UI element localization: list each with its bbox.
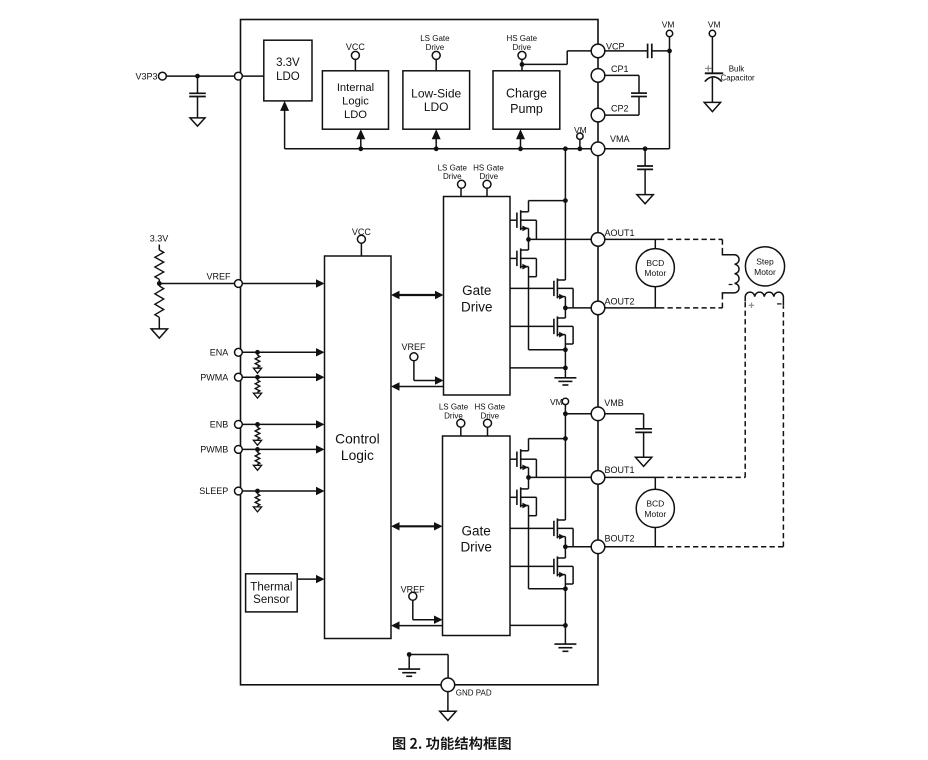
net label LS Gate Drive (top)	[420, 34, 450, 52]
wire LS Gate Drive stub (top)	[435, 59, 437, 70]
net label VM (near VMA)	[574, 125, 587, 135]
resistor R-divider-top	[155, 245, 164, 284]
pin CP2	[591, 108, 605, 122]
capacitor C-bulk polarized	[705, 73, 723, 102]
svg-text:Gate: Gate	[462, 283, 491, 298]
polarity + (bulk cap)	[705, 65, 712, 71]
svg-text:VREF: VREF	[401, 342, 426, 352]
node junction AOUT2 source	[563, 306, 568, 311]
ground (GND PAD)	[440, 711, 456, 720]
pin label BOUT1	[605, 465, 635, 475]
svg-text:CP1: CP1	[611, 64, 629, 74]
svg-text:LS Gate: LS Gate	[420, 34, 450, 43]
wire BCD motor 2 taps	[654, 477, 656, 546]
svg-text:VCP: VCP	[606, 41, 625, 51]
pin label CP1	[611, 64, 629, 74]
wire Thermal Sensor to Control Logic with arrow	[297, 575, 324, 583]
pin VMA	[591, 142, 605, 156]
ground (V3P3 cap)	[190, 118, 205, 126]
resistor pulldown ENA	[253, 350, 261, 373]
svg-text:Logic: Logic	[342, 95, 369, 107]
pin label BOUT2	[605, 533, 635, 543]
pin ENA	[235, 348, 243, 356]
svg-text:LDO: LDO	[276, 71, 300, 83]
svg-text:HS Gate: HS Gate	[473, 163, 504, 172]
IC boundary (chip outline)	[241, 20, 599, 685]
node junction A gnd return	[563, 366, 568, 371]
wire GND PAD to internal ground	[409, 655, 448, 679]
svg-text:Capacitor: Capacitor	[720, 73, 755, 82]
svg-text:PWMB: PWMB	[200, 445, 228, 455]
net label ENA	[210, 348, 229, 358]
svg-text:HS Gate: HS Gate	[474, 403, 505, 412]
block Gate Drive A	[444, 197, 511, 396]
pin VMB	[591, 407, 605, 421]
transistor M4A (low-side A2)	[510, 308, 573, 378]
node junction B gnd return	[563, 623, 568, 628]
pin PWMB	[235, 446, 243, 454]
node VM circle B	[562, 398, 568, 404]
wire PWMB to Control Logic with arrow	[242, 445, 324, 453]
node HS Gate Drive circle (top)	[518, 51, 526, 59]
svg-text:CP2: CP2	[611, 103, 629, 113]
net label ENB	[210, 420, 229, 430]
svg-text:Drive: Drive	[460, 540, 492, 555]
wire VCC stub (control logic)	[360, 243, 362, 256]
svg-text:VM: VM	[550, 397, 563, 407]
node HS Gate Drive circle B	[484, 419, 492, 427]
svg-text:Drive: Drive	[479, 172, 498, 181]
block Low-Side LDO	[403, 71, 470, 129]
ground (bridge B)	[554, 644, 576, 651]
svg-text:Logic: Logic	[341, 448, 374, 463]
caption 图2 functional block diagram	[393, 737, 511, 751]
node VCC circle (control logic)	[357, 235, 365, 243]
node VM circle (near VMA)	[577, 133, 583, 139]
node LS Gate Drive circle (top)	[432, 51, 440, 59]
ground (bulk cap)	[704, 102, 720, 111]
node VM-VCP junction	[667, 49, 672, 54]
wire rail to Internal Logic LDO with arrow	[356, 129, 365, 149]
net label PWMA	[200, 372, 228, 382]
net label VREF (bridge B)	[401, 584, 426, 594]
pin BOUT2	[591, 540, 605, 554]
wire BOUT1 dashed to winding B	[659, 302, 745, 478]
svg-text:BCD: BCD	[646, 499, 664, 509]
node junction B source return	[563, 586, 568, 591]
svg-text:VM: VM	[662, 20, 675, 30]
node junction M1A drain	[563, 198, 568, 203]
node rail junction under ILLDO	[358, 146, 363, 151]
wire VM rail A vertical	[564, 149, 566, 280]
svg-text:PWMA: PWMA	[200, 372, 228, 382]
node junction M1B drain	[563, 436, 568, 441]
transistor M2B (low-side B1)	[510, 477, 565, 588]
pin label GND PAD	[456, 688, 492, 697]
pin CP1	[591, 69, 605, 83]
wire HS stub A	[486, 188, 488, 196]
wire cap to VM node	[652, 50, 670, 52]
motor BCD Motor 2	[636, 489, 674, 527]
node HS Gate Drive circle A	[483, 180, 491, 188]
pin label AOUT1	[605, 228, 635, 238]
block Internal Logic LDO	[322, 71, 388, 129]
wire CP1-CP2 loop	[605, 75, 639, 115]
svg-text:Step: Step	[756, 257, 774, 267]
svg-text:Pump: Pump	[510, 102, 543, 116]
svg-text:Motor: Motor	[644, 268, 666, 278]
svg-text:Charge: Charge	[506, 86, 547, 100]
svg-text:Motor: Motor	[644, 509, 666, 519]
capacitor C-V3P3	[189, 76, 206, 118]
wire ENB to Control Logic with arrow	[242, 420, 324, 428]
node rail junction under LSLDO	[434, 146, 439, 151]
svg-text:VMA: VMA	[610, 134, 630, 144]
svg-text:VCC: VCC	[346, 42, 366, 52]
node rail junction under Charge Pump	[518, 146, 523, 151]
net label HS Gate Drive (bridge A)	[473, 163, 504, 181]
svg-text:Thermal: Thermal	[250, 582, 292, 594]
svg-text:3.3V: 3.3V	[276, 57, 300, 69]
wire VCP to cap	[605, 50, 648, 52]
svg-text:Drive: Drive	[461, 299, 493, 314]
ground (internal)	[398, 669, 420, 676]
inductor winding A (step motor)	[722, 252, 739, 296]
svg-text:Drive: Drive	[512, 43, 531, 52]
capacitor C-VMA	[637, 149, 653, 195]
wire LS stub A	[460, 188, 462, 196]
svg-text:3.3V: 3.3V	[150, 234, 169, 244]
net label VCC (top)	[346, 42, 366, 52]
svg-text:GND PAD: GND PAD	[456, 688, 492, 697]
wire VREF B to gate drive with arrow	[413, 600, 443, 624]
wire gate drive A return	[510, 367, 565, 369]
net label LS Gate Drive (bridge B)	[439, 403, 469, 421]
wire rail to Low-Side LDO with arrow	[432, 129, 441, 149]
transistor M2A (low-side A1)	[510, 239, 565, 349]
net label VM (top)	[662, 20, 675, 30]
node VCC circle (top)	[351, 51, 359, 59]
node junction A source return	[563, 347, 568, 352]
transistor M1A (high-side A1)	[510, 201, 536, 240]
pin GND PAD	[441, 678, 455, 692]
pin BOUT1	[591, 471, 605, 485]
capacitor C-VCP (series)	[648, 44, 652, 59]
resistor pulldown PWMB	[253, 447, 261, 470]
wire M1B drain top link	[529, 438, 566, 440]
net label SLEEP	[199, 486, 228, 496]
block Charge Pump	[493, 71, 560, 129]
wire VM to bulk cap	[711, 37, 713, 73]
net label PWMB	[200, 445, 228, 455]
resistor pulldown ENB	[253, 422, 261, 445]
pin ENB	[235, 421, 243, 429]
net label HS Gate Drive (bridge B)	[474, 403, 505, 421]
wire gate drive B return	[510, 624, 565, 626]
node junction AOUT1 source	[526, 237, 531, 242]
net label VREF (pin)	[206, 272, 231, 282]
inductor winding B (step motor)	[745, 292, 783, 306]
pin VCP	[591, 44, 605, 58]
svg-text:VM: VM	[708, 20, 721, 30]
wire SLEEP to Control Logic with arrow	[242, 487, 324, 495]
ground (bridge A)	[554, 378, 576, 385]
node junction BOUT1 source	[526, 475, 531, 480]
block Thermal Sensor	[246, 574, 298, 612]
node VM circle (bulk)	[709, 30, 715, 36]
wire LS stub B	[460, 427, 462, 436]
wire AOUT2 dashed to winding A	[659, 296, 722, 308]
pin AOUT1	[591, 233, 605, 247]
net label HS Gate Drive (top)	[506, 34, 537, 52]
transistor M1B (high-side B1)	[510, 439, 536, 478]
svg-text:Bulk: Bulk	[729, 64, 746, 73]
svg-text:BOUT2: BOUT2	[605, 533, 635, 543]
wire VMB line	[565, 413, 643, 415]
wire VCC stub	[354, 59, 356, 70]
block Gate Drive B	[443, 436, 511, 636]
polarity - (winding A)	[729, 284, 733, 286]
wire bidirectional Control-GateDriveB	[391, 522, 443, 530]
block 3.3V LDO	[264, 40, 312, 101]
svg-text:Drive: Drive	[443, 172, 462, 181]
svg-text:AOUT1: AOUT1	[605, 228, 635, 238]
node V3P3 junction	[195, 74, 200, 79]
svg-text:SLEEP: SLEEP	[199, 486, 228, 496]
wire gate drive A to control with arrow	[391, 382, 444, 390]
node VMA cap junction	[643, 146, 648, 151]
block Control Logic	[325, 256, 392, 639]
node VREF circle A	[410, 353, 418, 361]
net label VM (bulk)	[708, 20, 721, 30]
pin label VMB	[604, 398, 624, 408]
svg-text:Drive: Drive	[426, 43, 445, 52]
pin label AOUT2	[605, 296, 635, 306]
net label V3P3	[135, 71, 157, 81]
node LS Gate Drive circle A	[458, 180, 466, 188]
pin PWMA	[235, 373, 243, 381]
ground (VMA cap)	[637, 195, 653, 204]
pin AOUT2	[591, 301, 605, 315]
svg-text:LS Gate: LS Gate	[438, 163, 468, 172]
svg-text:Motor: Motor	[754, 267, 776, 277]
net label VCC (control logic)	[352, 227, 372, 237]
capacitor C-flying (CP1-CP2)	[631, 93, 647, 96]
svg-text:Internal: Internal	[337, 82, 374, 94]
capacitor C-VMB	[635, 414, 652, 457]
wire V3P3 to 3.3V LDO	[166, 75, 263, 77]
wire VM tap stub near VMA	[579, 139, 581, 148]
svg-text:ENA: ENA	[210, 348, 229, 358]
ground (divider)	[151, 329, 167, 338]
wire VM stub B	[564, 405, 566, 414]
svg-text:BOUT1: BOUT1	[605, 465, 635, 475]
pin label CP2	[611, 103, 629, 113]
svg-text:Gate: Gate	[462, 523, 491, 538]
pin label VMA	[610, 134, 630, 144]
svg-text:Low-Side: Low-Side	[411, 87, 461, 101]
wire GND PAD down	[447, 692, 449, 712]
wire BCD motor 1 taps	[654, 239, 656, 308]
svg-text:V3P3: V3P3	[135, 71, 157, 81]
wire gate drive B to control with arrow	[391, 621, 443, 629]
pin V3P3 (external terminal)	[159, 72, 167, 80]
svg-text:LDO: LDO	[424, 100, 449, 114]
wire AOUT2 net	[565, 307, 659, 309]
wire AOUT1 dashed to winding A	[659, 239, 722, 252]
svg-text:VREF: VREF	[206, 272, 231, 282]
wire internal VM rail (horizontal)	[285, 148, 592, 150]
node VREF divider junction	[157, 281, 162, 286]
transistor M3A (high-side A2)	[510, 278, 573, 308]
resistor pulldown PWMA	[253, 375, 261, 398]
pin V3P3 chip-edge	[235, 72, 243, 80]
svg-text:Sensor: Sensor	[253, 594, 290, 606]
node junction BOUT2 source	[563, 544, 568, 549]
transistor M4B (low-side B2)	[510, 547, 573, 644]
polarity + (winding B)	[749, 303, 754, 308]
net label LS Gate Drive (bridge A)	[438, 163, 468, 181]
wire M1A drain top link	[529, 200, 566, 202]
ground (VMB cap)	[635, 457, 651, 466]
label Bulk Capacitor	[720, 64, 755, 82]
node VREF circle B	[409, 592, 417, 600]
wire VM rail B vertical	[564, 414, 566, 520]
pin VREF	[235, 280, 243, 288]
node rail junction at VM tap	[578, 146, 583, 151]
wire HS stub B	[487, 427, 489, 436]
motor BCD Motor 1	[636, 249, 674, 287]
wire HS Gate Drive stub and route to VCP	[522, 51, 591, 71]
transistor M3B (high-side B2)	[510, 518, 573, 546]
wire VREF A to gate drive with arrow	[414, 361, 444, 385]
svg-text:Drive: Drive	[480, 411, 499, 420]
node VM circle (top)	[666, 30, 672, 36]
node LS Gate Drive circle B	[457, 419, 465, 427]
svg-text:VMB: VMB	[604, 398, 624, 408]
wire VM vertical to VMA line	[605, 37, 670, 149]
svg-text:LDO: LDO	[344, 109, 367, 121]
net label 3.3V	[150, 234, 169, 244]
resistor pulldown SLEEP	[253, 489, 261, 512]
node junction HSGD-VCP	[520, 62, 525, 67]
wire ground stub	[408, 655, 410, 669]
wire bidirectional Control-GateDriveA	[391, 291, 444, 299]
svg-text:HS Gate: HS Gate	[506, 34, 537, 43]
net label VREF (bridge A)	[401, 342, 426, 352]
wire rail to Charge Pump with arrow	[516, 129, 525, 149]
wire BOUT2 dashed to winding B	[659, 306, 783, 547]
net label VM (bridge B)	[550, 397, 563, 407]
node internal ground junction	[407, 652, 412, 657]
wire ENA to Control Logic with arrow	[242, 348, 324, 356]
resistor R-divider-bottom	[155, 284, 164, 329]
pin label VCP	[606, 41, 625, 51]
node rail junction at VM bridge rail A	[563, 146, 568, 151]
wire AOUT1 net	[529, 238, 660, 240]
svg-text:AOUT2: AOUT2	[605, 296, 635, 306]
node junction VMB rail	[563, 411, 568, 416]
polarity - (winding B)	[777, 303, 782, 305]
motor Step Motor	[745, 247, 784, 286]
pin SLEEP	[235, 487, 243, 495]
wire PWMA to Control Logic with arrow	[242, 373, 324, 381]
svg-text:BCD: BCD	[646, 258, 664, 268]
wire VREF to Control Logic with arrow	[159, 279, 324, 287]
wire BOUT2 net	[565, 546, 659, 548]
wire BOUT1 net	[529, 476, 660, 478]
svg-text:ENB: ENB	[210, 420, 229, 430]
svg-text:Control: Control	[335, 432, 379, 447]
wire VM rail to 3.3V LDO with arrow	[280, 101, 289, 149]
svg-text:LS Gate: LS Gate	[439, 403, 469, 412]
